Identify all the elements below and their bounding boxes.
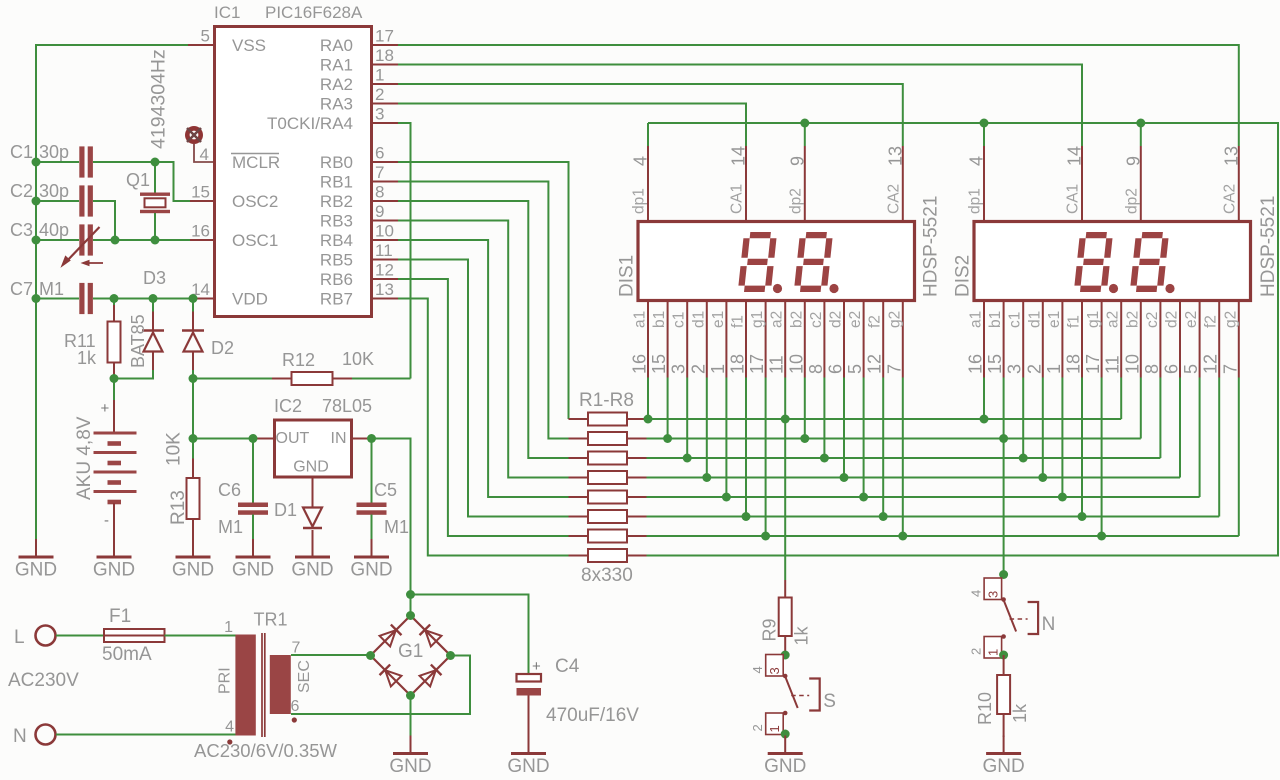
- svg-text:d1: d1: [690, 311, 707, 328]
- svg-text:13: 13: [375, 280, 394, 299]
- svg-text:AC230V: AC230V: [8, 670, 79, 691]
- D2 label: [211, 338, 234, 358]
- wires RB0-RB7 to resistor network: [398, 162, 569, 556]
- DIS1 name label: [617, 255, 638, 297]
- svg-text:C6: C6: [218, 480, 241, 500]
- svg-text:6: 6: [1162, 364, 1182, 374]
- svg-text:16: 16: [630, 354, 650, 374]
- svg-text:CA2: CA2: [885, 184, 902, 214]
- wire segment bus f: [647, 512, 1220, 521]
- svg-text:dp1: dp1: [967, 188, 984, 214]
- svg-text:8: 8: [806, 364, 826, 374]
- svg-text:GND: GND: [291, 560, 333, 581]
- wire dp2 DIS1 stub: [804, 123, 806, 146]
- resistor R11: [108, 299, 121, 379]
- switch N: [969, 578, 1056, 658]
- svg-text:VSS: VSS: [232, 36, 266, 55]
- IC1 right pin stubs: [372, 45, 398, 299]
- svg-text:d1: d1: [1026, 311, 1043, 328]
- svg-text:RB7: RB7: [320, 290, 353, 309]
- D3 labels: [128, 268, 166, 368]
- wire RA4 pullup: [398, 123, 411, 379]
- wire dp1 DIS1 stub: [647, 123, 649, 146]
- R1-R8 name label: [579, 390, 634, 411]
- junction D2 R12 node: [189, 374, 198, 383]
- IC2 pin names: [276, 430, 347, 476]
- svg-text:78L05: 78L05: [322, 396, 372, 416]
- capacitor C5: [357, 439, 387, 541]
- svg-text:RA3: RA3: [320, 95, 353, 114]
- svg-text:c2: c2: [1144, 312, 1161, 328]
- svg-text:12: 12: [865, 354, 885, 374]
- IC IC2 78L05 body: [275, 420, 352, 477]
- transformer TR1: [235, 633, 290, 737]
- svg-text:HDSP-5521: HDSP-5521: [921, 196, 942, 297]
- wire segment bus e: [647, 493, 1200, 502]
- DIS1 top pin labels: [631, 146, 906, 214]
- svg-text:R13: R13: [168, 490, 189, 525]
- D1 label: [274, 500, 297, 520]
- wire dp bus: [647, 119, 1279, 556]
- svg-text:BAT85: BAT85: [128, 314, 148, 368]
- svg-text:1k: 1k: [77, 348, 97, 368]
- svg-text:1k: 1k: [1010, 703, 1030, 723]
- svg-text:S: S: [823, 691, 836, 712]
- svg-text:e2: e2: [847, 311, 864, 328]
- wire IN net: [367, 434, 411, 595]
- AC230V label: [8, 670, 79, 691]
- wire N to TR1: [56, 734, 236, 736]
- L label: [14, 627, 25, 648]
- svg-text:10K: 10K: [342, 349, 374, 369]
- svg-text:1k: 1k: [792, 625, 812, 645]
- wire G1 plus node: [406, 590, 415, 616]
- IC1 left pin numbers: [191, 27, 210, 300]
- DIS1 bottom pin wires: [648, 378, 903, 537]
- svg-text:GND: GND: [350, 560, 392, 581]
- svg-text:8: 8: [1142, 364, 1162, 374]
- svg-text:C5: C5: [374, 480, 397, 500]
- svg-text:2: 2: [688, 364, 708, 374]
- G1 label: [398, 641, 423, 662]
- Q1 value label 4194304Hz: [148, 49, 170, 149]
- resistor R9: [779, 419, 792, 660]
- svg-text:IC2: IC2: [274, 396, 302, 416]
- svg-text:dp1: dp1: [631, 188, 648, 214]
- R11 labels: [64, 331, 97, 368]
- svg-text:g1: g1: [1085, 311, 1102, 328]
- diode D1: [303, 508, 322, 541]
- svg-text:f1: f1: [730, 315, 747, 328]
- wire VSS left rail: [32, 45, 189, 540]
- C5 labels: [374, 480, 409, 537]
- IC2 pin stubs: [253, 439, 372, 508]
- svg-text:L: L: [14, 627, 25, 648]
- svg-text:11: 11: [767, 355, 787, 374]
- wire S to GND: [781, 730, 790, 739]
- wire OSC1 node: [93, 236, 190, 245]
- wire segment bus b: [647, 434, 1141, 443]
- C1 labels: [10, 142, 69, 162]
- capacitor C2: [79, 185, 93, 216]
- svg-text:dp2: dp2: [787, 188, 804, 214]
- wire VDD node: [93, 294, 198, 303]
- svg-text:+: +: [101, 400, 110, 417]
- ground GND battery: [93, 539, 135, 581]
- DIS1 value label HDSP-5521: [921, 196, 942, 297]
- svg-text:-: -: [104, 512, 109, 529]
- terminal N: [36, 725, 56, 745]
- resistor R12: [193, 372, 411, 385]
- svg-text:IC1: IC1: [214, 3, 240, 22]
- svg-text:f2: f2: [1203, 315, 1220, 328]
- svg-text:f1: f1: [1066, 315, 1083, 328]
- svg-text:3: 3: [986, 591, 1001, 598]
- svg-text:PIC16F628A: PIC16F628A: [265, 3, 363, 22]
- wire RA3 to DIS1 CA1: [398, 104, 746, 147]
- svg-text:3: 3: [1005, 364, 1025, 374]
- DIS2 bottom pin wires: [984, 378, 1239, 537]
- svg-text:c1: c1: [671, 312, 688, 328]
- svg-text:R1-R8: R1-R8: [579, 390, 634, 411]
- svg-text:4: 4: [750, 666, 765, 673]
- wire segment bus c: [647, 454, 1161, 463]
- svg-text:g2: g2: [1222, 311, 1239, 328]
- TR1 value label: [194, 740, 337, 761]
- svg-text:SEC: SEC: [296, 660, 313, 693]
- svg-text:6: 6: [291, 698, 300, 715]
- svg-text:1: 1: [708, 364, 728, 374]
- wire TR1 sec bottom to G1: [291, 656, 470, 715]
- C4 labels: [546, 656, 639, 726]
- svg-text:OUT: OUT: [276, 430, 310, 447]
- svg-text:T0CKI/RA4: T0CKI/RA4: [267, 114, 353, 133]
- svg-text:VDD: VDD: [232, 290, 268, 309]
- svg-text:CA1: CA1: [1065, 184, 1082, 214]
- svg-text:b1: b1: [987, 311, 1004, 328]
- svg-text:5: 5: [201, 27, 210, 46]
- svg-text:C2: C2: [10, 181, 33, 201]
- svg-text:N: N: [13, 726, 27, 747]
- diode D2: [182, 299, 204, 379]
- svg-text:b1: b1: [651, 311, 668, 328]
- svg-text:RB1: RB1: [320, 173, 353, 192]
- Q1 name label: [126, 170, 150, 190]
- svg-text:18: 18: [728, 354, 748, 374]
- svg-text:6: 6: [826, 364, 846, 374]
- DIS1 segment pin names: [632, 311, 904, 328]
- svg-text:D2: D2: [211, 338, 234, 358]
- svg-text:30p: 30p: [39, 142, 69, 162]
- ground GND C5: [350, 539, 392, 581]
- R13 labels: [164, 432, 190, 525]
- svg-text:RA0: RA0: [320, 36, 353, 55]
- svg-text:OSC1: OSC1: [232, 231, 278, 250]
- wire segment bus d: [647, 473, 1181, 482]
- svg-text:f2: f2: [867, 315, 884, 328]
- svg-text:e2: e2: [1183, 311, 1200, 328]
- svg-text:17: 17: [1083, 354, 1103, 374]
- svg-text:GND: GND: [172, 560, 214, 581]
- svg-text:2: 2: [375, 85, 384, 104]
- svg-text:HDSP-5521: HDSP-5521: [1258, 196, 1279, 297]
- svg-text:DIS2: DIS2: [953, 255, 974, 297]
- diode D3 BAT85: [114, 299, 164, 379]
- pin 4 number label: [200, 145, 209, 164]
- svg-text:4: 4: [631, 156, 651, 166]
- wire RA1 to DIS2 CA1: [398, 65, 1082, 147]
- battery labels: [74, 400, 110, 529]
- svg-text:5: 5: [845, 364, 865, 374]
- svg-text:17: 17: [747, 354, 767, 374]
- svg-text:11: 11: [375, 241, 393, 260]
- IC1 left pin stubs 5/15/16/14: [188, 45, 214, 299]
- svg-text:18: 18: [1064, 354, 1084, 374]
- DIS1 bottom pin numbers: [630, 354, 905, 374]
- IC1 right pin names RA0-RA4 RB0-RB7: [267, 36, 353, 309]
- svg-text:g2: g2: [886, 311, 903, 328]
- svg-text:b2: b2: [1124, 311, 1141, 328]
- svg-text:3: 3: [375, 105, 384, 124]
- svg-text:2: 2: [969, 648, 984, 655]
- svg-text:c1: c1: [1007, 312, 1024, 328]
- svg-text:RA1: RA1: [320, 56, 353, 75]
- svg-text:7: 7: [375, 163, 384, 182]
- svg-text:GND: GND: [15, 560, 57, 581]
- svg-text:e1: e1: [1046, 311, 1063, 328]
- wire 5V OUT net: [189, 434, 258, 443]
- ground GND N: [982, 736, 1024, 778]
- C6 labels: [218, 480, 243, 537]
- svg-text:50mA: 50mA: [102, 644, 152, 665]
- svg-text:IN: IN: [331, 430, 347, 447]
- svg-text:10K: 10K: [164, 432, 185, 466]
- svg-text:CA1: CA1: [729, 184, 746, 214]
- svg-text:GND: GND: [764, 756, 806, 777]
- resistor R13 with wire from D2 node: [187, 379, 200, 541]
- svg-text:G1: G1: [398, 641, 423, 662]
- svg-text:e1: e1: [710, 311, 727, 328]
- svg-text:C1: C1: [10, 142, 33, 162]
- svg-text:1: 1: [1044, 364, 1064, 374]
- svg-text:16: 16: [191, 222, 210, 241]
- svg-text:C7: C7: [10, 279, 33, 299]
- svg-text:MCLR: MCLR: [232, 153, 280, 172]
- svg-text:40p: 40p: [39, 220, 69, 240]
- svg-text:a1: a1: [968, 311, 985, 328]
- svg-text:GND: GND: [507, 756, 549, 777]
- svg-text:9: 9: [375, 202, 384, 221]
- DIS2 segment pin names: [968, 311, 1240, 328]
- svg-text:RB4: RB4: [320, 231, 353, 250]
- svg-text:+: +: [532, 658, 541, 675]
- wire C3 to rail: [36, 239, 79, 241]
- wire G1 to GND: [410, 696, 412, 737]
- svg-text:15: 15: [985, 354, 1005, 374]
- svg-text:a1: a1: [632, 311, 649, 328]
- svg-text:1: 1: [375, 66, 384, 85]
- svg-text:a2: a2: [769, 311, 786, 328]
- bridge rectifier G1: [366, 611, 455, 700]
- battery B1 AKU 4.8V: [94, 379, 137, 541]
- IC1 right pin numbers: [375, 27, 394, 300]
- TR1 name label: [254, 610, 288, 630]
- svg-text:RB5: RB5: [320, 251, 353, 270]
- svg-text:13: 13: [1221, 146, 1241, 166]
- svg-text:14: 14: [729, 146, 749, 166]
- svg-text:2: 2: [750, 724, 765, 731]
- IC1 name label: [214, 3, 240, 22]
- svg-text:5: 5: [1181, 364, 1201, 374]
- wire L to fuse: [56, 635, 104, 637]
- svg-text:4194304Hz: 4194304Hz: [148, 49, 170, 149]
- wire pin4 MCLR: [194, 144, 213, 163]
- svg-text:d2: d2: [828, 311, 845, 328]
- ground GND C4: [507, 736, 549, 778]
- svg-text:C4: C4: [555, 656, 580, 677]
- svg-text:1: 1: [224, 619, 233, 636]
- C7 labels: [10, 279, 64, 299]
- DIS1 top pin stubs: [648, 146, 903, 222]
- resistor network R1-R8 8x330: [569, 413, 647, 563]
- N label: [13, 726, 27, 747]
- ground GND G1: [389, 736, 431, 778]
- wire TR1 sec top to G1: [291, 654, 371, 656]
- wire C1 to OSC2: [93, 158, 190, 202]
- svg-text:M1: M1: [39, 279, 64, 299]
- C3 labels: [10, 220, 69, 240]
- wire segment bus a: [644, 415, 1122, 424]
- svg-text:9: 9: [787, 156, 807, 166]
- svg-text:R10: R10: [975, 692, 995, 725]
- C2 labels: [10, 181, 69, 201]
- svg-text:F1: F1: [109, 606, 131, 627]
- junction battery node: [110, 374, 119, 383]
- ground GND C6: [232, 539, 274, 581]
- R12 labels: [282, 349, 374, 370]
- svg-text:15: 15: [191, 183, 210, 202]
- svg-text:N: N: [1042, 614, 1056, 635]
- resistor R10: [997, 651, 1010, 738]
- ground GND left rail: [15, 539, 57, 581]
- display DIS1 HDSP-5521 body: [638, 222, 915, 301]
- C4 plus label: [532, 658, 541, 675]
- svg-text:GND: GND: [389, 756, 431, 777]
- wire C2 to rail: [36, 200, 79, 202]
- capacitor C1: [79, 146, 93, 177]
- svg-text:D1: D1: [274, 500, 297, 520]
- R10 labels: [975, 692, 1030, 725]
- svg-text:3: 3: [669, 364, 689, 374]
- svg-text:RB0: RB0: [320, 153, 353, 172]
- DIS2 top pin labels: [967, 146, 1242, 214]
- wire C7 to rail: [36, 298, 79, 300]
- svg-text:10: 10: [1122, 354, 1142, 374]
- svg-text:4: 4: [225, 719, 234, 736]
- svg-text:GND: GND: [93, 560, 135, 581]
- svg-text:d2: d2: [1164, 311, 1181, 328]
- svg-text:15: 15: [649, 354, 669, 374]
- DIS1 bottom pin stubs: [648, 301, 903, 378]
- svg-text:Q1: Q1: [126, 170, 150, 190]
- svg-text:4: 4: [969, 590, 984, 597]
- svg-text:GND: GND: [232, 560, 274, 581]
- svg-text:2: 2: [1024, 364, 1044, 374]
- IC1 value label PIC16F628A: [265, 3, 363, 22]
- DIS2 name label: [953, 255, 974, 297]
- DIS2 digits 8.8.: [1077, 235, 1174, 293]
- svg-text:a2: a2: [1105, 311, 1122, 328]
- R9 labels: [760, 618, 812, 645]
- svg-text:1: 1: [767, 725, 782, 732]
- wire RA2 to DIS1 CA2: [398, 84, 903, 146]
- wire dp1 DIS2 stub: [983, 123, 985, 146]
- R1-R8 value label 8x330: [581, 565, 633, 586]
- svg-text:b2: b2: [788, 311, 805, 328]
- ground GND S: [764, 736, 806, 778]
- svg-text:8: 8: [375, 183, 384, 202]
- wire RA0 to DIS2 CA2: [398, 45, 1239, 146]
- svg-text:10: 10: [375, 222, 394, 241]
- TR1 polarity dots: [227, 717, 297, 744]
- svg-text:6: 6: [375, 144, 384, 163]
- svg-text:8x330: 8x330: [581, 565, 633, 586]
- DIS2 bottom pin numbers: [966, 354, 1241, 374]
- IC IC1 PIC16F628A body: [215, 27, 372, 317]
- wire b bus to N: [999, 439, 1008, 580]
- svg-text:M1: M1: [218, 517, 243, 537]
- svg-text:RB2: RB2: [320, 192, 353, 211]
- svg-text:10: 10: [786, 354, 806, 374]
- svg-text:c2: c2: [808, 312, 825, 328]
- svg-text:M1: M1: [384, 517, 409, 537]
- DIS2 value label HDSP-5521: [1258, 196, 1279, 297]
- svg-text:R9: R9: [760, 618, 780, 641]
- svg-text:9: 9: [1123, 156, 1143, 166]
- MCLR reset cross symbol: [187, 128, 201, 142]
- IC2 value label 78L05: [322, 396, 372, 416]
- svg-text:3: 3: [767, 667, 782, 674]
- svg-text:g1: g1: [749, 311, 766, 328]
- svg-text:7: 7: [1220, 364, 1240, 374]
- svg-text:AC230/6V/0.35W: AC230/6V/0.35W: [194, 740, 337, 761]
- wire segment bus g: [647, 532, 1239, 541]
- svg-text:12: 12: [1201, 354, 1221, 374]
- svg-text:470uF/16V: 470uF/16V: [546, 705, 639, 726]
- TR1 pin numbers: [224, 619, 300, 736]
- svg-text:GND: GND: [293, 459, 329, 476]
- svg-text:18: 18: [375, 46, 394, 65]
- svg-text:DIS1: DIS1: [617, 255, 638, 297]
- svg-text:12: 12: [375, 261, 394, 280]
- IC1 left pin names VSS/MCLR/OSC2/OSC1/VDD: [231, 36, 280, 309]
- svg-text:TR1: TR1: [254, 610, 288, 630]
- ground GND D1: [291, 539, 333, 581]
- F1 labels: [102, 606, 152, 665]
- svg-text:AKU 4,8V: AKU 4,8V: [74, 416, 95, 500]
- svg-text:C3: C3: [10, 220, 33, 240]
- svg-text:4: 4: [967, 156, 987, 166]
- svg-text:16: 16: [966, 354, 986, 374]
- svg-text:11: 11: [1103, 355, 1123, 374]
- capacitor C7: [79, 283, 93, 314]
- svg-text:dp2: dp2: [1123, 188, 1140, 214]
- svg-text:7: 7: [884, 364, 904, 374]
- wire fuse to TR1: [165, 635, 236, 637]
- IC2 name label: [274, 396, 302, 416]
- switch S: [750, 655, 836, 735]
- svg-text:30p: 30p: [39, 181, 69, 201]
